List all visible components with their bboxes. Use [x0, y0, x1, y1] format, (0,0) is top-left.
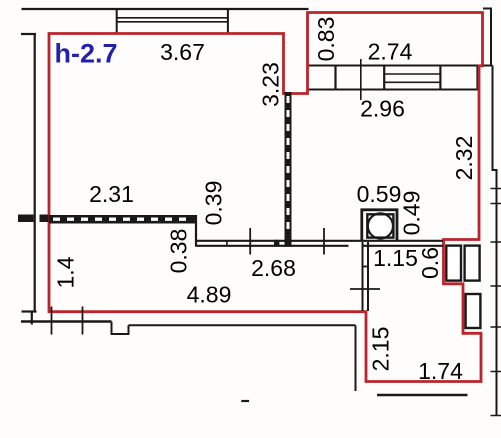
dashed wall (vertical) between rooms [285, 92, 292, 240]
fixture rect C [466, 294, 481, 328]
svg-text:3.67: 3.67 [160, 39, 205, 65]
bottom tick 1 [51, 307, 53, 335]
fixture rect A [446, 246, 461, 281]
svg-text:2.31: 2.31 [89, 181, 134, 207]
bottom tick 2 [82, 307, 84, 335]
right wall ticks [491, 189, 501, 416]
window W1 glazing lines [117, 18, 228, 22]
closet wall vertical double line [363, 242, 369, 311]
bottom-left shelf step [22, 310, 37, 312]
svg-text:1.4: 1.4 [53, 256, 79, 288]
svg-text:0.38: 0.38 [166, 229, 192, 274]
balcony window band top line [308, 65, 493, 67]
band divider / dim tick 2.96 [360, 59, 362, 100]
svg-text:2.32: 2.32 [451, 136, 477, 181]
band divider 4 [439, 66, 441, 90]
band divider 3 [383, 66, 385, 90]
wall divider small [226, 240, 228, 247]
dashed wall (horizontal) living room bottom [49, 215, 196, 224]
svg-text:2.96: 2.96 [360, 96, 405, 122]
svg-text:0.83: 0.83 [313, 17, 339, 62]
appliance niche walls [362, 210, 397, 240]
bottom-left step vertical [31, 312, 33, 325]
balcony window band bottom line [308, 89, 479, 91]
hall right wall lower vertical [355, 325, 357, 391]
closet door jamb tick [362, 266, 370, 268]
svg-text:0.39: 0.39 [201, 181, 227, 226]
svg-text:4.89: 4.89 [187, 282, 232, 308]
left neighbour wall vertical [34, 33, 36, 312]
svg-text:0.49: 0.49 [399, 191, 425, 236]
svg-text:2.74: 2.74 [368, 39, 413, 65]
svg-text:2.68: 2.68 [251, 255, 296, 281]
window W1 left jamb [116, 8, 118, 34]
svg-text:h-2.7: h-2.7 [54, 39, 117, 69]
washing machine square [367, 214, 393, 237]
left neighbour wall stub [21, 33, 36, 35]
interior wall y=246 bottom line segments [196, 245, 444, 247]
closet cross tick [350, 288, 380, 290]
door tick 2 [323, 228, 325, 255]
wall pier [274, 240, 279, 247]
top outer wall line [22, 8, 309, 10]
small dash mark [241, 400, 249, 402]
dashed wall foot [285, 240, 292, 247]
band right end cap [476, 66, 478, 90]
svg-text:3.23: 3.23 [258, 62, 284, 107]
1.74 underline [377, 394, 468, 396]
svg-text:1.15: 1.15 [373, 245, 418, 271]
right outer building wall upper [493, 66, 497, 416]
bottom notch [112, 322, 129, 335]
interior wall y=240 top line [196, 240, 444, 242]
band inner box lines [384, 74, 440, 82]
band divider 1 [334, 66, 336, 90]
red apartment boundary [49, 13, 483, 382]
fixture rect B [465, 246, 480, 281]
bottom outer line right segment [129, 324, 356, 326]
svg-text:1.74: 1.74 [418, 358, 463, 384]
washing machine drum circle [368, 213, 393, 238]
balcony outer corner black [483, 9, 491, 66]
dashed wall left bars beyond red [18, 215, 34, 223]
svg-text:0.59: 0.59 [357, 181, 402, 207]
door tick 1 [249, 228, 251, 255]
bottom outer line left segment [21, 320, 112, 322]
window W1 right jamb [227, 8, 229, 34]
wall end cap at x=196 [195, 215, 197, 247]
svg-text:0.6: 0.6 [417, 247, 443, 279]
svg-text:2.15: 2.15 [368, 327, 394, 372]
